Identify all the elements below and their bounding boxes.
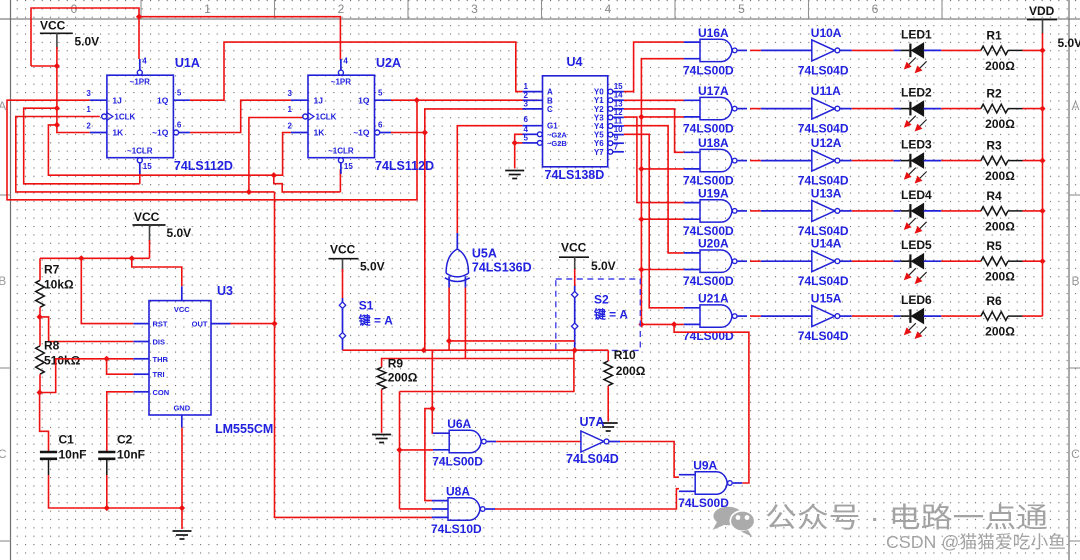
wire VCC stem down to U1A 1K (57, 47, 90, 133)
svg-text:0: 0 (71, 2, 78, 16)
svg-text:R9: R9 (388, 357, 404, 371)
junction (446, 338, 452, 344)
junction (671, 321, 677, 327)
junction (638, 321, 644, 327)
svg-text:10nF: 10nF (117, 448, 145, 462)
wire NAND out to inverter (750, 160, 761, 162)
svg-text:U10A: U10A (811, 26, 842, 40)
switch S1 (key = A) (339, 269, 393, 350)
svg-text:R4: R4 (986, 189, 1002, 203)
svg-text:R7: R7 (44, 263, 60, 277)
wire VCC loop to U1A/U2A preset (31, 8, 139, 66)
junction (638, 166, 644, 172)
svg-text:74LS138D: 74LS138D (545, 168, 605, 182)
power VCC supply (top-left) 5.0V (40, 19, 99, 50)
svg-text:~1Q: ~1Q (353, 128, 370, 138)
ground (R10) (599, 423, 618, 431)
wire C2 to gnd bus (106, 475, 108, 508)
svg-text:U1A: U1A (175, 56, 200, 70)
wire LED to resistor (941, 315, 981, 317)
wire inverter out to LED (852, 210, 894, 212)
svg-text:U6A: U6A (447, 417, 471, 431)
inverter U14A 74LS04D (761, 237, 852, 289)
junction (179, 505, 185, 511)
wire resistor to VDD rail (1023, 315, 1043, 317)
svg-text:TRI: TRI (153, 370, 165, 379)
resistor R9 200 ohm (377, 357, 417, 390)
wire 555 OUT to clock bus (231, 323, 275, 325)
junction (54, 105, 60, 111)
svg-text:R6: R6 (986, 294, 1002, 308)
svg-text:VCC: VCC (174, 305, 190, 314)
inverter U12A 74LS04D (761, 136, 852, 188)
svg-text:200Ω: 200Ω (985, 117, 1015, 131)
wire to U8A mid input (400, 508, 432, 510)
junction (512, 140, 518, 146)
resistor R5 200 ohm (981, 239, 1023, 284)
wire R7 top lead (39, 258, 41, 280)
svg-text:1: 1 (204, 2, 211, 16)
svg-text:VCC: VCC (40, 19, 66, 33)
wire clock bus riser to U2A 1CLK (249, 117, 303, 192)
wire C1 to gnd bus (49, 475, 183, 508)
svg-text:4: 4 (605, 2, 612, 16)
wire resistor to VDD rail (1023, 108, 1043, 110)
svg-text:2: 2 (338, 2, 345, 16)
svg-text:LED3: LED3 (901, 138, 932, 152)
svg-text:1: 1 (86, 105, 91, 114)
svg-text:U14A: U14A (811, 237, 842, 251)
wire LED to resistor (941, 108, 981, 110)
junction (638, 266, 644, 272)
wire U1A 1Q to U4 A (190, 42, 522, 100)
NAND gate U17A 74LS00D (683, 84, 747, 136)
svg-text:DIS: DIS (153, 338, 166, 347)
svg-text:LED6: LED6 (901, 293, 932, 307)
svg-text:VCC: VCC (561, 241, 587, 255)
svg-text:1Q: 1Q (157, 95, 169, 105)
wire U7A out to U9A in1 (620, 442, 679, 478)
svg-text:~1CLR: ~1CLR (127, 147, 153, 156)
svg-text:U11A: U11A (811, 84, 841, 98)
resistor R10 200 ohm (604, 348, 646, 386)
svg-text:A: A (547, 88, 553, 97)
junction (422, 129, 428, 135)
svg-text:74LS04D: 74LS04D (798, 122, 849, 136)
wire VCC branch to RST (81, 258, 133, 323)
wire branch to U6A in2 (400, 449, 433, 451)
wire VCC branch to 555 VCC pin (132, 258, 182, 286)
wire XOR left input (448, 288, 450, 341)
svg-text:C: C (547, 105, 553, 114)
junction (1039, 47, 1045, 53)
svg-text:74LS00D: 74LS00D (432, 455, 483, 469)
wire R9 line (382, 350, 574, 367)
junction (429, 406, 435, 412)
wire strobe branch (641, 116, 683, 118)
svg-text:5: 5 (378, 89, 383, 98)
svg-text:B: B (1071, 274, 1079, 288)
wire LED to resistor (941, 160, 981, 162)
svg-text:200Ω: 200Ω (985, 219, 1015, 233)
wire U2A ~1Q down to U4 C (391, 109, 525, 133)
svg-text:200Ω: 200Ω (985, 169, 1015, 183)
svg-text:15: 15 (344, 162, 353, 171)
wire U5A output to U4 G1 (457, 126, 522, 233)
junction (78, 255, 84, 261)
NAND gate U8A 74LS10D (3-input) (431, 485, 495, 537)
wire strobe branch (641, 269, 683, 271)
wire jog loop-B to U2A CLR net (274, 175, 341, 192)
svg-text:74LS10D: 74LS10D (431, 522, 482, 536)
svg-text:U16A: U16A (698, 26, 729, 40)
svg-text:74LS04D: 74LS04D (798, 63, 849, 77)
svg-text:1K: 1K (314, 128, 326, 138)
svg-text:R8: R8 (44, 339, 60, 353)
svg-text:U7A: U7A (580, 415, 605, 429)
svg-text:U20A: U20A (698, 237, 729, 251)
power VCC supply (above S2) 5.0V (559, 241, 616, 274)
junction (572, 347, 578, 353)
XOR gate U5A 74LS136D (445, 233, 532, 288)
NAND gate U9A 74LS00D (678, 459, 742, 511)
wire loop-B VCC to U2A 1K (48, 125, 291, 175)
junction (414, 97, 420, 103)
junction (37, 314, 43, 320)
wire resistor to VDD rail (1023, 49, 1043, 51)
NAND gate U18A 74LS00D (683, 136, 747, 188)
svg-text:1: 1 (288, 105, 293, 114)
resistor R8 510k ohm (36, 339, 81, 375)
wire resistor to VDD rail (1023, 260, 1043, 262)
wire R7 to R8 node (39, 307, 41, 346)
wire THR to TRI tie (107, 359, 134, 374)
LED4 (894, 188, 942, 234)
svg-text:U5A: U5A (472, 247, 497, 261)
svg-text:C2: C2 (117, 433, 133, 447)
svg-text:~1Q: ~1Q (152, 128, 169, 138)
svg-text:LED4: LED4 (901, 188, 932, 202)
resistor R1 200 ohm (981, 28, 1023, 73)
wire clock bus vertical (275, 192, 432, 518)
svg-text:1CLK: 1CLK (316, 113, 337, 122)
svg-text:5: 5 (738, 2, 745, 16)
wire R10 to ground (607, 386, 609, 422)
ground (U4 enables) (505, 171, 524, 179)
flip-flop U2A 74LS112D (288, 56, 435, 174)
svg-text:U21A: U21A (698, 292, 729, 306)
svg-text:C1: C1 (59, 433, 75, 447)
svg-text:VDD: VDD (1029, 4, 1055, 18)
svg-text:LED2: LED2 (901, 86, 932, 100)
junction (54, 63, 60, 69)
wire XOR left input to S2 (449, 340, 575, 342)
junction (54, 122, 60, 128)
LED1 (894, 27, 942, 73)
svg-text:5.0V: 5.0V (1058, 36, 1080, 50)
wire strobe branch (641, 168, 683, 170)
resistor R4 200 ohm (981, 189, 1023, 234)
wire resistor to VDD rail (1023, 210, 1043, 212)
inverter U13A 74LS04D (761, 186, 852, 238)
svg-text:A: A (0, 99, 6, 113)
svg-text:4: 4 (343, 57, 348, 66)
svg-text:U19A: U19A (698, 186, 729, 200)
wire U1A ~1Q to U2A 1J (190, 100, 291, 132)
junction (396, 447, 402, 453)
wire inverter out to LED (852, 108, 894, 110)
wire NAND out to inverter (750, 315, 761, 317)
wire U6A/U8A strobe line (400, 359, 574, 392)
wire 555 GND pin to ground (181, 428, 183, 530)
svg-text:200Ω: 200Ω (985, 270, 1015, 284)
svg-text:6: 6 (378, 121, 383, 130)
svg-text:U17A: U17A (698, 84, 729, 98)
svg-text:3: 3 (86, 89, 91, 98)
svg-text:6: 6 (524, 115, 529, 124)
wire G2A/G2B to ground (515, 134, 523, 168)
svg-text:200Ω: 200Ω (388, 371, 418, 385)
svg-text:Y7: Y7 (594, 148, 604, 157)
svg-text:LED5: LED5 (901, 238, 932, 252)
svg-text:1J: 1J (314, 95, 324, 105)
NAND gate U20A 74LS00D (683, 237, 747, 289)
svg-text:CON: CON (153, 388, 170, 397)
junction (129, 255, 135, 261)
svg-text:1K: 1K (112, 128, 124, 138)
LED3 (894, 138, 942, 184)
wire strobe branch to U8A (425, 409, 432, 501)
timer U3 LM555CM (133, 284, 273, 436)
junction (246, 189, 252, 195)
svg-text:U9A: U9A (693, 459, 717, 473)
junction (104, 505, 110, 511)
wire NAND out to inverter (750, 260, 761, 262)
svg-text:B: B (0, 274, 6, 288)
junction (1039, 158, 1045, 164)
wire preset branch to U2A pin4 (139, 17, 340, 60)
svg-text:15: 15 (143, 162, 152, 171)
svg-text:VCC: VCC (330, 243, 356, 257)
wire U6A out to U7A (496, 441, 581, 443)
flip-flop U1A 74LS112D (86, 56, 233, 174)
LED5 (894, 238, 942, 284)
junction (136, 14, 142, 20)
wire loop-A VCC to U1A CLR (24, 108, 140, 184)
wire inverter out to LED (852, 260, 894, 262)
svg-text:74LS112D: 74LS112D (174, 159, 233, 173)
svg-text:A: A (1071, 99, 1079, 113)
svg-text:U18A: U18A (698, 136, 729, 150)
svg-text:74LS04D: 74LS04D (798, 329, 849, 343)
inverter U7A 74LS04D (566, 415, 620, 466)
svg-text:1CLK: 1CLK (114, 113, 135, 122)
svg-text:200Ω: 200Ω (616, 364, 646, 378)
svg-text:键 = A: 键 = A (358, 313, 393, 328)
svg-text:~1CLR: ~1CLR (328, 147, 354, 156)
wire node down to C1 (40, 393, 49, 453)
resistor R2 200 ohm (981, 87, 1023, 132)
svg-text:3: 3 (288, 89, 293, 98)
svg-text:10nF: 10nF (59, 448, 87, 462)
svg-text:74LS00D: 74LS00D (683, 63, 734, 77)
svg-text:R1: R1 (986, 28, 1002, 42)
wire NAND out to inverter (750, 49, 761, 51)
junction (421, 347, 427, 353)
inverter U11A 74LS04D (761, 84, 852, 136)
svg-text:74LS04D: 74LS04D (798, 274, 849, 288)
wire switch line S1 to R10 (343, 349, 609, 351)
wire VCC to R7/RST/VCC pin (40, 257, 150, 259)
wire XOR left leg down (448, 341, 450, 350)
wire ~1Q net down to switch line (424, 133, 426, 351)
inverter U15A 74LS04D (761, 292, 852, 344)
junction (638, 216, 644, 222)
svg-text:THR: THR (153, 355, 169, 364)
wire Y4 to U20A (624, 126, 684, 253)
svg-text:200Ω: 200Ω (985, 325, 1015, 339)
svg-text:3: 3 (524, 99, 529, 108)
wire U1A 1CLK to clock bus (16, 117, 275, 192)
svg-text:R5: R5 (986, 239, 1002, 253)
capacitor C1 10nF (40, 433, 87, 476)
switch S2 (key = A) with selection box (556, 269, 641, 350)
svg-text:S1: S1 (359, 299, 374, 313)
resistor R3 200 ohm (981, 139, 1023, 184)
wire R8 bottom to C1/THR node (40, 359, 133, 393)
wire VCC loop joint (31, 65, 57, 67)
svg-text:键 = A: 键 = A (593, 306, 628, 321)
svg-text:R10: R10 (614, 348, 636, 362)
resistor R6 200 ohm (981, 294, 1023, 339)
wire LED to resistor (941, 49, 981, 51)
wire U9A out riser (674, 324, 749, 483)
svg-text:R2: R2 (986, 87, 1002, 101)
wire U1A 1J feedback loop (7, 100, 417, 200)
junction (1039, 258, 1045, 264)
wire Y2 to U18A (624, 109, 684, 152)
wire strobe branch (641, 218, 683, 220)
wire G2B tie (515, 142, 523, 144)
wire LED to resistor (941, 210, 981, 212)
svg-text:3: 3 (471, 2, 478, 16)
svg-text:U3: U3 (217, 284, 233, 298)
wire inverter out to LED (852, 49, 894, 51)
svg-text:U8A: U8A (446, 485, 470, 499)
wire NAND out to inverter (750, 108, 761, 110)
wire inverter out to LED (852, 315, 894, 317)
junction (104, 356, 110, 362)
wire VCC stem (149, 240, 151, 258)
svg-text:2: 2 (288, 122, 293, 131)
svg-text:U4: U4 (567, 55, 583, 69)
wire VDD rail (1042, 33, 1044, 316)
svg-text:510kΩ: 510kΩ (44, 354, 81, 368)
junction (37, 389, 43, 395)
svg-text:VCC: VCC (134, 210, 160, 224)
capacitor C2 10nF (98, 433, 145, 476)
power VDD supply (top-right) 5.0V (1027, 4, 1080, 50)
NAND gate U21A 74LS00D (683, 292, 747, 344)
svg-text:5.0V: 5.0V (360, 260, 385, 274)
svg-text:~1PR: ~1PR (130, 78, 150, 87)
ground (R9) (372, 435, 391, 443)
svg-text:5: 5 (177, 89, 182, 98)
svg-text:C: C (1071, 447, 1080, 461)
svg-text:~G2B: ~G2B (547, 139, 567, 148)
svg-text:2: 2 (86, 122, 91, 131)
svg-text:U13A: U13A (811, 186, 842, 200)
wire Y3 to U19A (624, 117, 684, 203)
svg-text:RST: RST (153, 320, 168, 329)
svg-text:~1PR: ~1PR (331, 78, 351, 87)
svg-text:OUT: OUT (192, 320, 208, 329)
wire XOR right input to R9 line (464, 288, 466, 359)
svg-text:200Ω: 200Ω (985, 59, 1015, 73)
junction (638, 114, 644, 120)
wire Y0 to U16A (624, 42, 684, 92)
svg-text:公众号 · 电路一点通: 公众号 · 电路一点通 (765, 502, 1048, 533)
wire CON to C2 (107, 392, 134, 452)
wire strobe bus vertical (641, 59, 683, 325)
NAND gate U19A 74LS00D (683, 186, 747, 238)
junction (271, 321, 277, 327)
svg-text:6: 6 (872, 2, 879, 16)
watermark text (765, 502, 1066, 552)
wire inverter out to LED (852, 160, 894, 162)
svg-text:S2: S2 (594, 293, 609, 307)
svg-text:1: 1 (524, 82, 529, 91)
svg-text:GND: GND (173, 404, 190, 413)
svg-text:7: 7 (614, 142, 619, 151)
junction (1039, 208, 1045, 214)
decoder U4 74LS138D (523, 55, 624, 182)
LED2 (894, 86, 942, 132)
power VCC supply (above U3) 5.0V (133, 210, 192, 241)
wire Y1 to U17A (624, 99, 684, 101)
wire Y5 to U21A (624, 134, 684, 307)
wire U2A 1Q to U4 B (391, 99, 538, 101)
svg-text:5.0V: 5.0V (167, 226, 192, 240)
wire U8A out to U9A in2 (495, 489, 679, 509)
wire strobe down to U6A input (431, 350, 434, 433)
inverter U10A 74LS04D (761, 26, 852, 78)
wire U2A CLR pin stub (339, 169, 341, 192)
wire resistor to VDD rail (1023, 160, 1043, 162)
NAND gate U16A 74LS00D (683, 26, 747, 78)
svg-text:5.0V: 5.0V (75, 35, 100, 49)
svg-text:1Q: 1Q (358, 95, 370, 105)
ground (U3/C1/C2) (173, 531, 192, 539)
svg-text:74LS00D: 74LS00D (683, 329, 734, 343)
NAND gate U6A 74LS00D (432, 417, 496, 469)
svg-text:LM555CM: LM555CM (215, 422, 273, 436)
svg-text:C: C (0, 447, 7, 461)
svg-text:10kΩ: 10kΩ (44, 278, 74, 292)
LED6 (894, 293, 942, 339)
svg-text:74LS04D: 74LS04D (566, 452, 619, 466)
svg-text:U2A: U2A (376, 56, 401, 70)
resistor R7 10k ohm (36, 263, 74, 308)
watermark WeChat logo (713, 507, 755, 537)
svg-text:R3: R3 (986, 139, 1002, 153)
power VCC supply (above S1) 5.0V (329, 243, 385, 274)
svg-text:LED1: LED1 (901, 27, 932, 41)
junction (271, 172, 277, 178)
svg-text:5: 5 (524, 133, 529, 142)
junction (1039, 106, 1045, 112)
wire strobe to U21A in2 (641, 323, 683, 325)
